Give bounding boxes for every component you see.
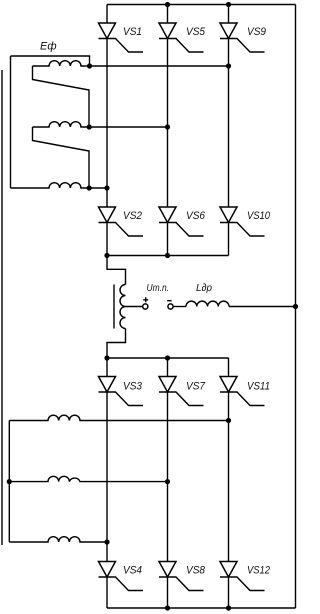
node windingB3 / VS3 column: [104, 539, 109, 544]
svg-text:VS1: VS1: [123, 26, 142, 38]
node windingB2 / VS7 column: [165, 479, 170, 484]
terminal +: [143, 304, 148, 309]
transformer Еф left vertical: [10, 56, 12, 188]
node bus3 / VS7: [165, 355, 170, 360]
thyristor VS4: [99, 562, 144, 591]
thyristor VS3: [99, 358, 144, 406]
thyristor VS12: [220, 562, 270, 591]
top bus: [107, 4, 296, 6]
node bus2 / VS2: [104, 253, 109, 258]
bus anode group 2: [107, 357, 229, 359]
node top bus / VS5 column: [165, 2, 170, 7]
node top bus / VS9 column: [226, 2, 231, 7]
node winding3 / VS1 column: [104, 185, 109, 190]
svg-text:VS12: VS12: [247, 565, 270, 577]
node windingB2 / left vertical: [7, 479, 12, 484]
wire reactor to bus3: [107, 329, 126, 359]
wire bus2 to reactor: [107, 256, 126, 285]
node winding1 / VS9 column: [226, 63, 231, 68]
svg-text:VS6: VS6: [186, 210, 206, 222]
bus cathode group 1: [107, 255, 229, 257]
transformer 2 left vertical: [8, 421, 10, 543]
svg-text:VS5: VS5: [186, 26, 206, 38]
wire zigzag 2: [33, 127, 90, 188]
wire Еф top link: [11, 56, 90, 66]
thyristor VS5: [159, 5, 206, 53]
wire zigzag 1: [33, 66, 90, 127]
winding 2 phase 1: [9, 415, 228, 420]
bottom bus: [107, 607, 296, 609]
svg-text:VS2: VS2: [123, 210, 142, 222]
node winding1 / top link: [87, 63, 92, 68]
wire VS1 column (cathode to bus 2): [106, 39, 108, 208]
winding Еф phase 3: [11, 183, 108, 188]
wire reactor tap: [126, 306, 143, 308]
winding 2 phase 2: [9, 476, 167, 481]
node windingB1 / VS11 column: [226, 418, 231, 423]
inductor Lдр: [186, 301, 229, 306]
thyristor VS7: [159, 358, 206, 406]
winding Еф phase 2: [33, 122, 168, 127]
node bottom bus / VS12: [226, 605, 231, 610]
wire VS8 cathode: [167, 577, 169, 608]
wire VS7 column: [167, 392, 169, 562]
node bus3 / VS3: [104, 355, 109, 360]
node bus2 / VS6: [165, 253, 170, 258]
svg-text:Еф: Еф: [40, 41, 57, 53]
wire VS10 cathode: [228, 223, 230, 256]
wire VS2 cathode: [106, 223, 108, 256]
wire Ldr to rail: [229, 306, 296, 308]
svg-text:VS9: VS9: [247, 26, 266, 38]
wire VS3 column: [106, 392, 108, 562]
wire VS6 cathode: [167, 223, 169, 256]
svg-text:VS10: VS10: [247, 210, 271, 222]
thyristor VS6: [159, 207, 206, 236]
wire VS5 column: [167, 39, 169, 208]
node winding3 / zigzag2: [87, 185, 92, 190]
svg-text:VS11: VS11: [247, 381, 270, 393]
svg-text:VS4: VS4: [123, 565, 142, 577]
svg-text:Um.n.: Um.n.: [147, 283, 170, 294]
phase input line: [1, 70, 3, 545]
node winding2 / VS5 column: [165, 124, 170, 129]
winding Еф phase 1: [33, 61, 229, 66]
wire VS12 cathode: [228, 577, 230, 608]
thyristor VS8: [159, 562, 206, 591]
wire VS11 column: [228, 392, 230, 562]
interphase reactor winding: [120, 285, 126, 329]
svg-text:VS7: VS7: [186, 381, 206, 393]
minus sign: [167, 300, 171, 302]
thyristor VS9: [220, 5, 266, 53]
node bottom bus / VS8: [165, 605, 170, 610]
winding 2 phase 3: [9, 537, 107, 542]
right rail: [295, 5, 297, 609]
thyristor VS11: [220, 358, 270, 406]
reactor core: [113, 285, 115, 329]
thyristor VS1: [99, 5, 144, 53]
terminal -: [168, 304, 173, 309]
wire terminal to Ldr: [173, 306, 186, 308]
svg-text:VS8: VS8: [186, 565, 206, 577]
wire VS9 column: [228, 39, 230, 208]
svg-text:VS3: VS3: [123, 381, 143, 393]
thyristor VS2: [99, 207, 144, 236]
wire VS4 cathode: [106, 577, 108, 608]
node winding2 / zigzag1: [87, 124, 92, 129]
svg-text:L∂p: L∂p: [196, 282, 212, 294]
plus sign: [143, 297, 148, 302]
node rail / Ldr: [293, 304, 298, 309]
thyristor VS10: [220, 207, 271, 236]
